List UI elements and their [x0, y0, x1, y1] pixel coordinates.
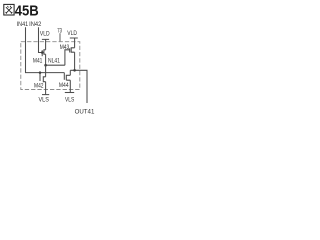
- junction dot output node: [73, 69, 76, 72]
- power symbol VLD left (T-bar): [42, 39, 49, 49]
- junction dot M41 gate: [41, 51, 44, 54]
- svg-text:NL41: NL41: [48, 57, 60, 64]
- M44 gate bar from IN41 wire: [63, 73, 65, 80]
- figure title 図45B: [4, 2, 39, 19]
- junction dot M42 gate: [39, 71, 42, 74]
- wire M41 source to node NL41: [45, 54, 47, 65]
- power symbol VLS left (bottom bar): [42, 94, 49, 96]
- output node wire to OUT41: [70, 70, 87, 103]
- svg-text:IN41: IN41: [17, 21, 29, 28]
- wire M43 gate to NL41: [65, 50, 70, 65]
- transistor M41: [42, 50, 45, 56]
- 図 glyph drawn manually: [4, 4, 14, 15]
- wire M44 source to VLS: [69, 80, 71, 92]
- svg-text:VLS: VLS: [39, 97, 49, 104]
- wire IN41 vertical: [26, 27, 65, 72]
- leader line for 73: [59, 33, 61, 41]
- svg-text:M44: M44: [59, 82, 69, 89]
- svg-text:M41: M41: [33, 57, 43, 64]
- transistor M43: [70, 48, 75, 53]
- dashed block boundary 73: [21, 42, 80, 90]
- wire IN42 vertical: [39, 27, 43, 52]
- wire M43 drain down: [74, 52, 76, 70]
- svg-text:VLD: VLD: [40, 31, 50, 38]
- svg-text:45B: 45B: [15, 2, 39, 19]
- wire M42 source to VLS: [45, 82, 47, 95]
- svg-text:VLD: VLD: [67, 30, 77, 37]
- node NL41 wire: [46, 64, 65, 66]
- wire NL41 to M42 drain: [45, 65, 47, 77]
- svg-text:M42: M42: [34, 82, 44, 89]
- power symbol VLS right (bottom bar): [65, 92, 74, 94]
- svg-text:VLS: VLS: [65, 96, 74, 103]
- svg-text:IN42: IN42: [29, 21, 42, 28]
- power symbol VLD right (T-bar): [70, 38, 78, 48]
- wire M44 drain up to output node: [69, 70, 71, 75]
- svg-text:OUT41: OUT41: [75, 109, 95, 116]
- transistor M44: [66, 75, 70, 80]
- transistor M42: [40, 73, 46, 82]
- junction dot NL41: [44, 64, 47, 67]
